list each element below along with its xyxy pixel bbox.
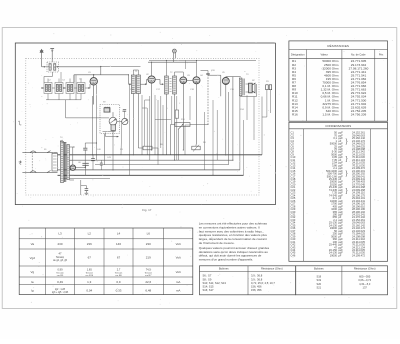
wire pot to C20: [194, 123, 209, 125]
osc cap C9: [123, 109, 126, 111]
speaker wires: [246, 83, 249, 85]
svg-text:230: 230: [57, 242, 62, 246]
bus 4: [58, 169, 240, 171]
wire drop 12: [154, 95, 156, 155]
wire drop 2: [96, 85, 98, 160]
drop from plate wire: [73, 75, 75, 83]
wire drop 6: [128, 84, 130, 175]
cathode resistor drop: [195, 145, 197, 147]
IF tube U2: [148, 76, 155, 83]
resistor R8: [192, 146, 200, 150]
antenna A2 (terre): [51, 49, 53, 58]
volume pot R10: [175, 123, 190, 127]
wire drop 22: [203, 112, 205, 170]
svg-text:Vg: Vg: [31, 270, 35, 274]
screen bus: [101, 65, 141, 67]
transformer top lead: [61, 140, 64, 142]
svg-text:mesures d'un grand nombre d'ap: mesures d'un grand nombre d'appareils.: [199, 257, 253, 261]
svg-text:6,48: 6,48: [145, 289, 151, 293]
rectifier tube U6: [70, 165, 75, 170]
svg-text:de g2, g3, g5: de g2, g3, g5: [53, 259, 68, 262]
wire drop 29: [253, 97, 255, 141]
svg-text:19000: 19000: [330, 253, 338, 257]
svg-text:24.756.209: 24.756.209: [351, 112, 367, 116]
wire drop 14: [160, 96, 162, 148]
wire drop 28: [251, 120, 253, 155]
antenna A1: [40, 49, 43, 52]
svg-text:Désignation: Désignation: [291, 53, 305, 57]
bus 6 (power only): [60, 177, 110, 179]
wire drop 10: [146, 108, 148, 155]
AVC drop: [65, 100, 67, 118]
wire drop 24: [216, 110, 218, 160]
wire G3-G4: [74, 87, 77, 89]
power transformer T4: [61, 142, 70, 183]
svg-text:Valeur: Valeur: [321, 53, 328, 57]
tuned circuit G4: [77, 79, 85, 94]
tuned circuit G2: [55, 79, 63, 94]
wire drop 25: [228, 90, 230, 120]
wire coupler out: [56, 66, 58, 68]
mains wire N: [22, 172, 57, 174]
wires T1: [128, 75, 130, 84]
svg-text:S8 ; S9: S8 ; S9: [203, 277, 212, 281]
wire drop 5: [120, 122, 123, 155]
wire drop 13: [157, 100, 159, 165]
wire U3-U4: [187, 79, 193, 81]
svg-text:24.199.472: 24.199.472: [352, 253, 366, 257]
lamp wires: [172, 53, 174, 63]
wire drop 26: [239, 96, 241, 170]
wire G2-G3: [63, 87, 66, 89]
svg-text:67: 67: [117, 256, 121, 260]
output transformer T3: [239, 78, 244, 96]
svg-text:Volt: Volt: [176, 242, 181, 246]
svg-text:0,04: 0,04: [86, 289, 92, 293]
svg-text:Fig. 17: Fig. 17: [142, 208, 152, 212]
margin mark: [19, 162, 22, 165]
svg-text:219: 219: [146, 256, 151, 260]
svg-text:Bobines: Bobines: [219, 267, 229, 271]
wire drop 23: [212, 100, 214, 175]
bus 5: [58, 174, 244, 176]
wire jog 2: [155, 119, 171, 121]
svg-text:S10; S11; S12; S13: S10; S11; S12; S13: [203, 281, 227, 285]
oscillator coil L4: [104, 108, 110, 112]
switch link: [31, 153, 33, 173]
oscillator grid resistor R4: [111, 125, 116, 131]
padder trimmer CT1: [109, 117, 117, 125]
resistances table frame: [289, 41, 388, 121]
svg-text:3,9 ; 36,8: 3,9 ; 36,8: [251, 277, 263, 281]
svg-text:L4: L4: [117, 232, 121, 236]
vertical resistor R9: [175, 110, 178, 118]
svg-text:156; 456: 156; 456: [251, 285, 262, 289]
switch S1: [47, 151, 51, 153]
svg-text:RÉSISTANCES: RÉSISTANCES: [327, 43, 349, 48]
wire G4 to mixer grid: [85, 87, 90, 89]
antenna coupler box: [47, 62, 59, 72]
svg-text:0,71; 25,6; 4,5; 10,7: 0,71; 25,6; 4,5; 10,7: [251, 281, 275, 285]
coil L2 in coupler: [54, 64, 56, 71]
svg-text:0,33: 0,33: [116, 289, 122, 293]
wire jog 3: [145, 99, 150, 101]
tuned circuit G3: [66, 79, 74, 94]
svg-text:0,66—0,74: 0,66—0,74: [358, 278, 371, 282]
wire drop 20: [184, 125, 186, 155]
wire antenna to coupler: [41, 58, 43, 67]
svg-text:S6 ; S7: S6 ; S7: [203, 274, 212, 278]
ground bus: [58, 154, 263, 156]
filter cap C42: [91, 157, 95, 159]
voltage selector block: [52, 153, 58, 171]
svg-text:S16; S17: S16; S17: [203, 288, 215, 292]
AVC bus top: [149, 59, 256, 61]
plug P: [20, 161, 21, 163]
svg-text:3,9 ; 36,8: 3,9 ; 36,8: [251, 274, 263, 278]
svg-text:sur R6: sur R6: [115, 274, 122, 277]
speaker SP: [249, 83, 253, 93]
svg-text:S21: S21: [316, 286, 321, 290]
svg-text:236: 236: [87, 242, 92, 246]
component ref labels: [44, 70, 269, 164]
oscillator box: [100, 105, 120, 134]
wire jog 1: [142, 107, 147, 109]
svg-text:S19: S19: [316, 278, 321, 282]
svg-text:S20: S20: [316, 282, 321, 286]
svg-text:CONDENSATEURS: CONDENSATEURS: [325, 124, 351, 128]
filter cap C40: [83, 147, 87, 149]
wire jog 4: [185, 124, 190, 126]
mains wire L: [22, 152, 57, 154]
filter cap C41: [82, 162, 88, 164]
wire to output grid: [208, 74, 221, 76]
svg-text:1,65: 1,65: [87, 268, 93, 272]
tuned circuit G1: [44, 79, 52, 94]
AF tube U4: [193, 77, 200, 84]
svg-text:sur R5: sur R5: [57, 274, 64, 277]
svg-text:74,5: 74,5: [146, 268, 152, 272]
chassis dotted boundary: [26, 58, 259, 195]
svg-text:mA: mA: [176, 280, 181, 284]
svg-text:L2: L2: [88, 232, 92, 236]
svg-text:4,33—5,3: 4,33—5,3: [359, 282, 371, 286]
wires T2: [160, 83, 163, 85]
svg-text:0,99: 0,99: [57, 268, 63, 272]
svg-text:1,5 M. Ohm: 1,5 M. Ohm: [322, 112, 339, 116]
osc bottom hook wire: [105, 132, 107, 136]
coupler bottom lead: [51, 72, 53, 77]
schematic outer frame: [15, 43, 275, 205]
wire drop 4: [112, 140, 114, 170]
resistor R6: [143, 146, 152, 150]
wire drop 21: [189, 96, 191, 120]
scan speckle noise: [13, 30, 394, 304]
wire drop 9: [144, 100, 146, 146]
coupling cap C20: [206, 72, 209, 74]
svg-text:sur R16: sur R16: [85, 274, 93, 277]
bus 3: [95, 164, 229, 166]
detector tube U3: [180, 77, 187, 84]
svg-text:μF: μF: [338, 253, 341, 257]
wire mixer plate top: [94, 74, 129, 76]
wire drop 19: [178, 130, 180, 161]
wire drop 3: [104, 134, 106, 165]
wire drop 27: [246, 95, 248, 120]
condensateurs table frame: [289, 122, 388, 261]
wire drop 16: [162, 105, 164, 155]
svg-text:Ig3 + Ig5 : 2,08: Ig3 + Ig5 : 2,08: [52, 291, 69, 294]
margin pen mark upper: [18, 121, 21, 125]
svg-text:22,6: 22,6: [145, 280, 151, 284]
voltage table frame: [19, 228, 193, 295]
svg-text:605—595: 605—595: [359, 275, 371, 279]
svg-text:Résistance (Ohm): Résistance (Ohm): [354, 267, 376, 271]
wire G1-G2: [41, 87, 44, 89]
ground symbol: [85, 192, 89, 194]
junction dots: [73, 60, 233, 176]
svg-text:mA: mA: [176, 289, 181, 293]
transformer secondary taps: [69, 146, 74, 148]
wire T1-U2: [140, 83, 146, 85]
pickup sockets PU: [266, 85, 269, 90]
svg-text:Va: Va: [31, 242, 35, 246]
wire drop 8: [141, 95, 143, 155]
plate wire U5: [226, 76, 241, 78]
svg-text:230: 230: [146, 242, 151, 246]
svg-text:0,9: 0,9: [116, 280, 121, 284]
IF transformer T1: [129, 75, 141, 94]
svg-text:C46: C46: [291, 253, 296, 257]
chassis ground cap: [80, 180, 82, 195]
bus risers right: [261, 97, 263, 155]
svg-text:Bobines: Bobines: [314, 267, 324, 271]
osc wires: [112, 131, 114, 141]
fuse bump 1: [30, 151, 36, 153]
svg-text:R16: R16: [292, 112, 298, 116]
wire drop 17: [171, 96, 173, 125]
wire drop 7: [132, 140, 134, 155]
svg-text:S18: S18: [316, 275, 321, 279]
fuse bump 2: [30, 171, 36, 173]
svg-text:156; 356: 156; 356: [251, 288, 262, 292]
svg-text:de l'instrument de mesure.: de l'instrument de mesure.: [199, 241, 235, 245]
tuned row ground bus: [46, 99, 81, 101]
svg-text:137: 137: [363, 286, 368, 290]
svg-text:Volt: Volt: [176, 270, 181, 274]
switch S2: [47, 171, 51, 173]
rectifier output wire: [76, 167, 86, 169]
output tube U5: [222, 78, 229, 85]
svg-text:Volt: Volt: [176, 256, 181, 260]
svg-text:No. de Code: No. de Code: [351, 53, 366, 57]
AVC return wire: [66, 117, 100, 119]
bias wire: [103, 131, 116, 133]
svg-text:67: 67: [88, 256, 92, 260]
bobines table left: [200, 266, 296, 295]
svg-text:S14; S15: S14; S15: [203, 285, 215, 289]
svg-text:Ig: Ig: [31, 289, 34, 293]
svg-text:146: 146: [116, 242, 121, 246]
dial lamp LP: [173, 49, 177, 53]
svg-text:1,3: 1,3: [87, 280, 92, 284]
svg-text:Ia: Ia: [31, 280, 34, 284]
svg-text:2,7: 2,7: [117, 268, 121, 272]
padder trimmer CT2: [122, 118, 128, 124]
svg-text:Vg2: Vg2: [30, 256, 36, 260]
wire drop 15: [157, 148, 159, 155]
svg-text:Prix: Prix: [379, 53, 384, 57]
grid wire node: [89, 84, 91, 88]
bobines table right: [296, 266, 388, 295]
svg-text:47: 47: [59, 252, 62, 256]
svg-text:L3: L3: [58, 232, 62, 236]
svg-text:sur R7: sur R7: [145, 274, 152, 277]
svg-text:L6: L6: [147, 232, 151, 236]
IF transformer T2: [165, 76, 177, 94]
svg-text:Résistance (Ohm): Résistance (Ohm): [261, 267, 283, 271]
wire drop 18: [176, 118, 178, 160]
mixer tube U1: [90, 78, 97, 85]
svg-text:PU: PU: [266, 81, 269, 83]
coil L1 in coupler: [49, 64, 51, 71]
filter cap C43: [100, 162, 103, 164]
wire drop 1: [91, 96, 93, 155]
B+ bus: [70, 159, 233, 161]
svg-text:0,49: 0,49: [57, 280, 63, 284]
wire drop 11: [149, 96, 151, 160]
